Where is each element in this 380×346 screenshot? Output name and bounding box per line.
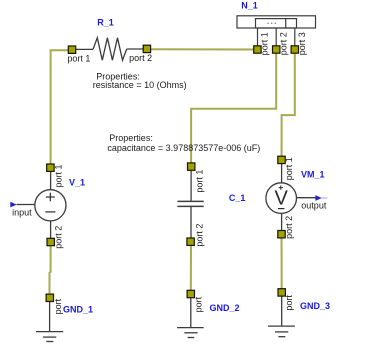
svg-text:V: V xyxy=(275,188,289,210)
svg-text:VM_1: VM_1 xyxy=(301,169,325,179)
wire N_1 port2 to C_1 port1 xyxy=(191,50,276,167)
svg-text:port: port xyxy=(53,298,63,314)
terminal C_1 port2 xyxy=(187,238,194,245)
terminal GND_2 xyxy=(187,290,194,297)
svg-text:port 1: port 1 xyxy=(194,170,204,193)
ground GND_1 xyxy=(36,301,63,341)
terminal C_1 port1 xyxy=(188,163,195,170)
svg-text:Properties:: Properties: xyxy=(109,133,153,143)
svg-text:V_1: V_1 xyxy=(69,178,85,188)
wire C_1 port2 to GND_2 xyxy=(190,242,192,294)
properties of R_1 xyxy=(93,71,187,90)
terminal N_1 port2 xyxy=(273,46,280,53)
wire VM_1 port2 to GND_3 xyxy=(281,234,283,292)
ground GND_3 xyxy=(268,296,295,337)
terminal N_1 port1 xyxy=(254,46,261,53)
output arrow xyxy=(315,195,321,201)
svg-text:port 1: port 1 xyxy=(67,53,90,63)
terminal N_1 port3 xyxy=(291,46,298,53)
svg-text:N_1: N_1 xyxy=(241,1,258,11)
voltage source V1 xyxy=(17,171,66,238)
terminal GND_3 xyxy=(278,289,285,296)
svg-text:capacitance = 3.978873577e-006: capacitance = 3.978873577e-006 (uF) xyxy=(107,143,260,153)
terminal R_1 port1 xyxy=(68,46,75,53)
terminal VM_1 port1 xyxy=(278,156,285,163)
input arrow xyxy=(10,202,16,208)
wire V_1 port2 to GND_1 xyxy=(50,242,51,298)
svg-text:GND_3: GND_3 xyxy=(300,301,330,311)
svg-text:output: output xyxy=(301,201,327,211)
terminal V_1 port1 xyxy=(47,164,54,171)
wire N_1 port3 to VM_1 port1 xyxy=(282,50,295,161)
terminal V_1 port2 xyxy=(47,238,54,245)
svg-text:resistance = 10 (Ohms): resistance = 10 (Ohms) xyxy=(93,80,187,90)
svg-text:port 1: port 1 xyxy=(53,164,63,187)
svg-text:C_1: C_1 xyxy=(229,193,246,203)
wire R_1 port2 to N_1 port1 xyxy=(147,48,258,50)
properties of C_1 xyxy=(107,133,260,153)
resistor R1 xyxy=(72,38,147,60)
terminal R_1 port2 xyxy=(143,45,150,52)
capacitor C1 xyxy=(177,170,203,238)
voltmeter VM1 xyxy=(266,163,316,231)
wire V_1 port1 to R_1 port1 xyxy=(51,50,72,165)
svg-text:port: port xyxy=(194,296,204,312)
svg-text:port: port xyxy=(284,295,294,311)
svg-text:port 2: port 2 xyxy=(194,224,204,247)
terminal VM_1 port2 xyxy=(278,231,285,238)
dots inside N_1 xyxy=(267,22,276,24)
svg-text:GND_1: GND_1 xyxy=(63,305,93,315)
plus sign of VM_1 xyxy=(279,185,283,189)
minus sign of VM_1 xyxy=(278,208,285,210)
svg-text:port 2: port 2 xyxy=(129,53,152,63)
n-port U1 N_1 xyxy=(237,16,316,46)
terminal GND_1 xyxy=(46,294,53,301)
svg-text:R_1: R_1 xyxy=(97,18,114,28)
output arrow tail xyxy=(322,197,328,199)
svg-text:input: input xyxy=(12,208,32,218)
ground GND_2 xyxy=(177,298,204,338)
svg-text:GND_2: GND_2 xyxy=(210,303,240,313)
